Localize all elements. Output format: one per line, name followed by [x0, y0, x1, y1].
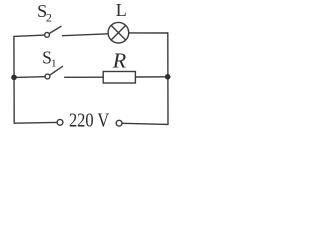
wire left rail — [13, 36, 15, 123]
switch S1 pivot — [45, 74, 50, 79]
svg-text:R: R — [112, 49, 127, 73]
switch S2 pivot — [45, 33, 50, 38]
lamp L cross line 1 — [111, 25, 126, 40]
wire middle left segment — [14, 76, 45, 79]
lamp L circle — [108, 22, 129, 43]
switch S2 blade — [49, 26, 61, 33]
svg-text:L: L — [116, 0, 127, 20]
lamp L cross line 2 — [111, 25, 126, 40]
terminal right circle — [116, 120, 122, 126]
svg-text:1: 1 — [51, 58, 57, 70]
wire top middle segment — [63, 34, 109, 36]
resistor R box — [103, 72, 135, 84]
terminal left circle — [57, 119, 63, 125]
junction node right — [165, 74, 171, 80]
wire top right segment — [129, 32, 168, 34]
svg-text:2: 2 — [46, 10, 52, 24]
wire top left segment — [14, 35, 45, 36]
switch S1 blade — [50, 66, 63, 75]
wire resistor to right rail — [135, 76, 167, 78]
wire bottom right segment — [122, 123, 168, 124]
wire right rail — [167, 33, 169, 124]
svg-text:220 V: 220 V — [69, 109, 110, 130]
wire bottom left segment — [14, 121, 57, 124]
junction node left — [11, 75, 17, 81]
wire middle segment to resistor — [65, 76, 104, 78]
